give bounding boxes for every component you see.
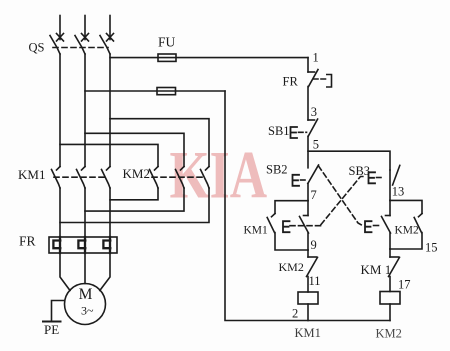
thermal relay FR heater box bbox=[49, 237, 117, 253]
svg-text:11: 11 bbox=[309, 274, 321, 288]
wire control neutral drop FU2 to bottom rail bbox=[225, 91, 390, 321]
wire KM2 pole1 output crossover to phase3 bbox=[110, 188, 158, 200]
wire tap phase2 to KM2 pole2 bbox=[85, 133, 184, 166]
svg-text:KM 1: KM 1 bbox=[361, 262, 392, 277]
wire FR to motor V bbox=[84, 253, 86, 284]
coil KM1 bbox=[298, 292, 318, 304]
wire tap phase1 to KM2 pole1 bbox=[60, 144, 158, 166]
wire KM2 pole2 output crossover to phase2 bbox=[85, 188, 184, 211]
contact KM1 interlock NC in right branch bbox=[389, 249, 400, 277]
wire KM2 aux loop top bbox=[390, 200, 422, 213]
ground PE wire bbox=[52, 301, 65, 322]
svg-text:PE: PE bbox=[44, 322, 59, 337]
wire tap phase3 to KM2 pole3 bbox=[110, 119, 209, 167]
svg-text:QS: QS bbox=[29, 41, 45, 55]
wire L1 incoming arrow bbox=[57, 16, 64, 42]
switch QS pole 3 blade bbox=[100, 36, 110, 55]
thermal relay FR heater element 2 bbox=[78, 237, 85, 253]
svg-text:FR: FR bbox=[283, 75, 299, 89]
dashed link SB3 to KM1-branch NC bbox=[290, 177, 365, 226]
thermal relay FR heater element 1 bbox=[53, 237, 60, 253]
contactor KM2 pole 1 bbox=[150, 167, 159, 189]
svg-text:KM2: KM2 bbox=[395, 225, 420, 237]
wire node17 bbox=[389, 277, 391, 292]
ground PE bar bbox=[43, 321, 61, 323]
motor M circle bbox=[65, 284, 106, 325]
dashed link SB2 to KM2-branch NC bbox=[319, 166, 363, 226]
svg-text:KM1: KM1 bbox=[244, 225, 269, 237]
svg-text:9: 9 bbox=[311, 238, 317, 252]
wire node1 to node3 bbox=[307, 87, 309, 121]
svg-text:FR: FR bbox=[19, 234, 36, 249]
wire SB2 to node7 bbox=[307, 184, 309, 201]
contact SB3-linked NC in left branch bbox=[283, 201, 309, 233]
wire left branch to node9 bbox=[307, 233, 309, 250]
svg-text:1: 1 bbox=[313, 51, 319, 65]
svg-text:3: 3 bbox=[311, 105, 317, 119]
button SB2 start-forward (NO) bbox=[293, 165, 319, 186]
wire SB3 to node13 bbox=[389, 170, 391, 200]
contactor KM1 dashed link bbox=[54, 176, 108, 178]
contactor KM1 pole 3 bbox=[102, 167, 111, 189]
contactor KM2 pole 3 bbox=[201, 167, 210, 189]
svg-text:KM2: KM2 bbox=[376, 327, 402, 341]
switch QS pole 2 blade bbox=[75, 36, 85, 55]
contact KM2 interlock NC in left branch bbox=[307, 250, 318, 277]
fuse FU2 bbox=[157, 88, 176, 95]
wire phase3 QS to KM1 pole3 bbox=[109, 54, 111, 167]
wire control phase branch corner into node 1 bbox=[307, 58, 309, 72]
wire node5 branch to SB3 bbox=[308, 151, 390, 170]
wire phase2 QS to KM1 pole2 bbox=[84, 54, 86, 167]
wire right branch to node15 bbox=[389, 233, 391, 249]
svg-text:SB1: SB1 bbox=[268, 124, 290, 138]
contactor KM2 dashed link bbox=[152, 176, 206, 178]
svg-text:17: 17 bbox=[398, 278, 411, 292]
wire coil KM2 to rail bbox=[389, 304, 391, 321]
wire coil KM1 to rail bbox=[307, 304, 309, 321]
wire KM2 aux loop bottom bbox=[390, 233, 422, 250]
contact KM2 auxiliary self-hold (NO) bbox=[414, 214, 422, 233]
svg-text:13: 13 bbox=[392, 185, 405, 199]
svg-text:7: 7 bbox=[311, 188, 317, 202]
contact SB2-linked NC in right branch bbox=[365, 200, 391, 233]
wire L2 incoming arrow bbox=[82, 16, 89, 42]
contactor KM1 pole 1 bbox=[52, 167, 61, 189]
wire FU2 feed from phase2 bbox=[85, 90, 225, 92]
wire node5 vertical bbox=[307, 136, 309, 168]
thermal relay FR heater element 3 bbox=[103, 237, 110, 253]
wire FR to motor U bbox=[60, 253, 70, 291]
contactor KM1 pole 2 bbox=[77, 167, 86, 189]
fuse FU1 bbox=[158, 54, 176, 61]
svg-text:FU: FU bbox=[158, 35, 176, 50]
wire KM1 aux loop bottom bbox=[275, 233, 308, 251]
wire node11 bbox=[307, 277, 309, 293]
button SB3 start-reverse (NO) bbox=[369, 165, 400, 185]
wire FR to motor W bbox=[100, 253, 110, 291]
wire FU1 feed from phase3 to control bbox=[110, 57, 308, 59]
coil KM2 bbox=[380, 292, 400, 305]
wire L3 incoming arrow bbox=[107, 16, 114, 42]
svg-text:SB2: SB2 bbox=[266, 163, 288, 177]
wire phase1 QS to KM1 pole1 bbox=[59, 54, 61, 167]
svg-text:M: M bbox=[79, 286, 93, 303]
svg-text:KM1: KM1 bbox=[18, 167, 45, 182]
contact KM1 auxiliary self-hold (NO) bbox=[267, 214, 275, 233]
wire KM1 outputs down to FR bbox=[59, 188, 61, 237]
thermal contact FR (NC) bbox=[308, 70, 332, 88]
button SB1 stop (NC) bbox=[291, 119, 318, 138]
wire KM2 pole3 output crossover to phase1 bbox=[60, 188, 209, 223]
svg-text:15: 15 bbox=[425, 241, 438, 255]
svg-text:KM1: KM1 bbox=[295, 326, 321, 340]
svg-text:3~: 3~ bbox=[81, 304, 94, 318]
svg-text:2: 2 bbox=[292, 307, 298, 321]
svg-text:5: 5 bbox=[313, 138, 319, 152]
svg-text:KM2: KM2 bbox=[279, 260, 304, 274]
wire KM1 aux loop top bbox=[275, 201, 308, 214]
switch QS pole 1 blade bbox=[50, 36, 60, 55]
svg-text:KM2: KM2 bbox=[123, 166, 150, 181]
switch QS interlock dashed link bbox=[53, 47, 108, 49]
svg-text:SB3: SB3 bbox=[349, 164, 371, 178]
contactor KM2 pole 2 bbox=[176, 167, 185, 189]
